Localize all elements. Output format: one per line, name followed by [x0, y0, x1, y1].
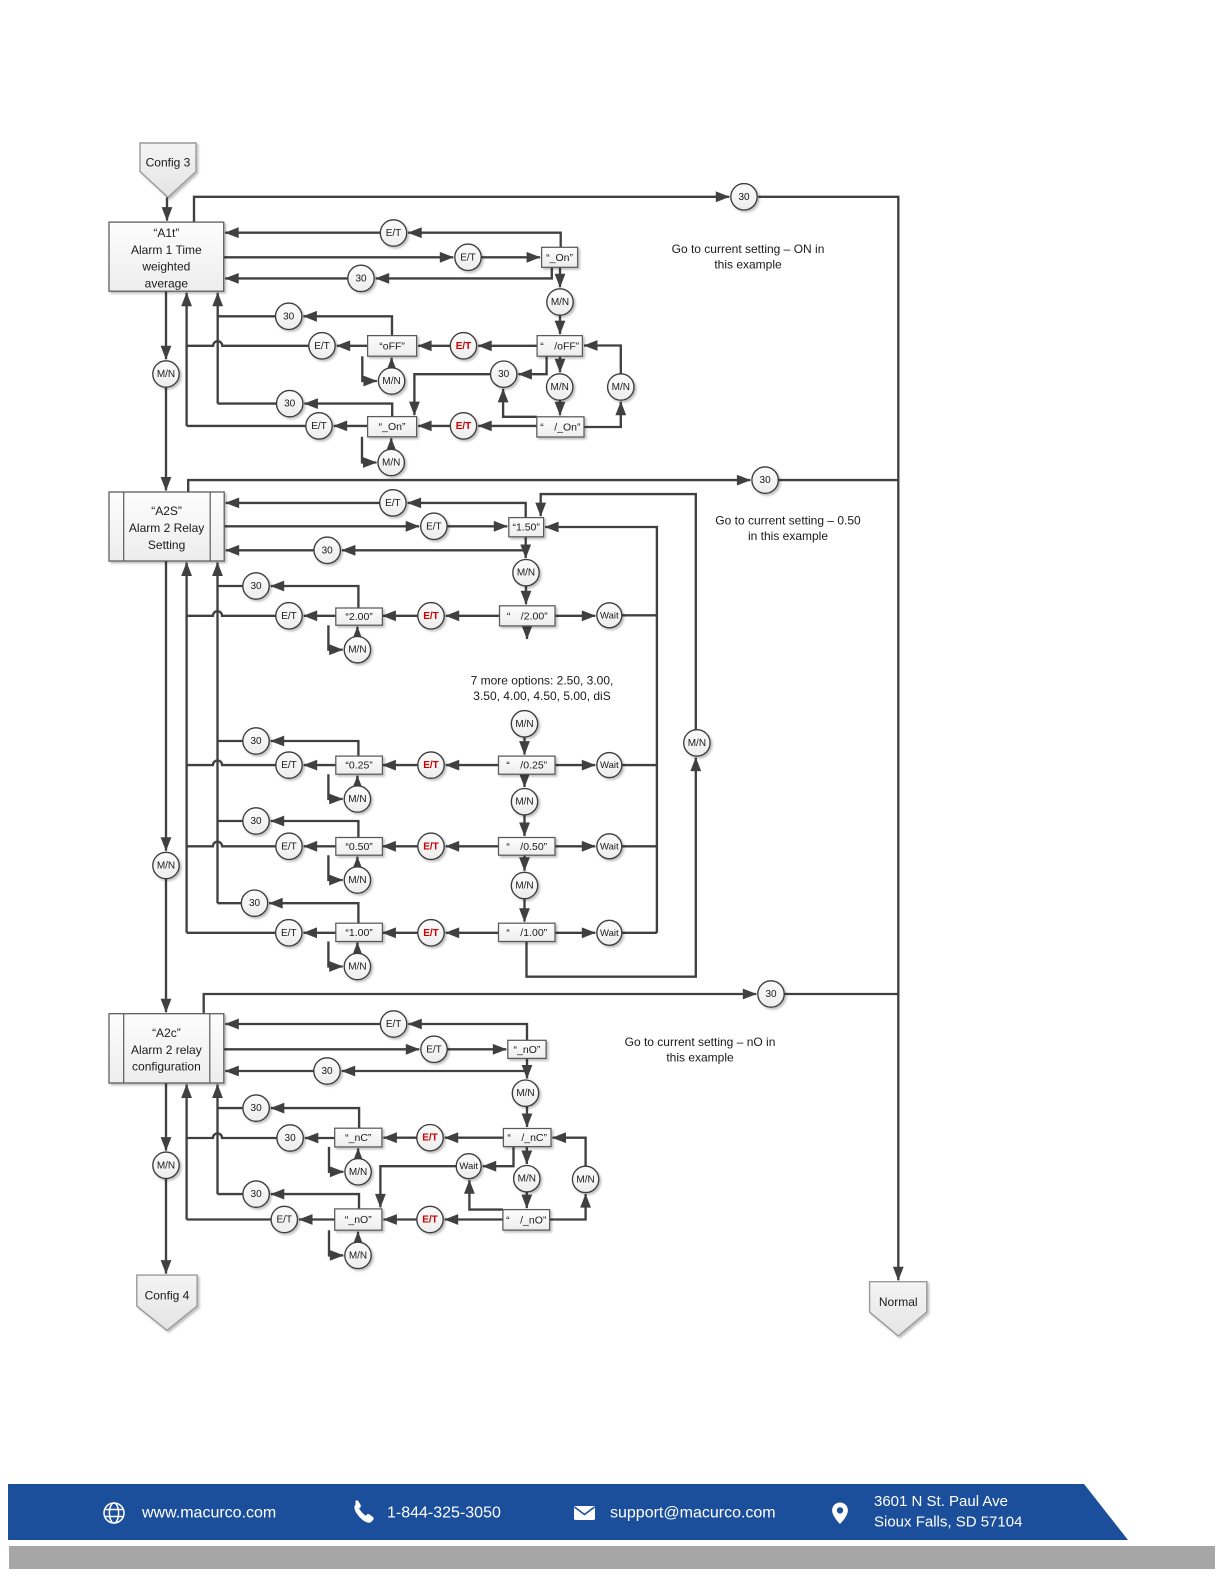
node E/T row2 S2 — [421, 513, 447, 539]
node M/N self-loop _nO — [345, 1242, 371, 1268]
node 30 r4 S2 — [241, 890, 267, 916]
svg-text:1-844-325-3050: 1-844-325-3050 — [387, 1505, 501, 1522]
wire /1.00 bottom to M/N return riser — [527, 758, 696, 977]
node M/N between /0.50 /1.00 — [511, 872, 537, 898]
wire _On to M/N — [559, 267, 561, 287]
svg-text:E/T: E/T — [386, 1019, 402, 1030]
wire red E/T to 1.00 box — [382, 932, 417, 934]
svg-text:Alarm 2 Relay: Alarm 2 Relay — [129, 521, 204, 535]
node 30 upper S3 — [243, 1095, 269, 1121]
wire 0.25 to E/T — [304, 764, 336, 766]
wire /_On to red E/T row — [478, 425, 537, 427]
node E/T r3 S2 — [276, 833, 302, 859]
note go to current setting 0.50 — [715, 514, 861, 544]
svg-text:30: 30 — [250, 736, 262, 747]
svg-text:“_On”: “_On” — [379, 421, 406, 433]
svg-text:E/T: E/T — [281, 928, 297, 939]
node red E/T nO row — [417, 1206, 443, 1232]
wire _On bottom to 30 row3 — [376, 267, 552, 278]
svg-text:this example: this example — [666, 1051, 734, 1065]
wire 30-return vertical into A2S bottom — [216, 563, 218, 904]
wire left M/N to A2c — [165, 879, 167, 1013]
node M/N left column S1 — [153, 361, 179, 387]
svg-text:30: 30 — [760, 475, 772, 486]
wire 0.50 top to 30 row — [271, 821, 359, 838]
box " /1.00" S2 — [499, 923, 556, 941]
box " /_On" blink S1 — [537, 417, 584, 437]
svg-text:E/T: E/T — [423, 611, 439, 622]
node Wait r2 S2 — [597, 753, 622, 778]
node 30 timeout top S1 — [731, 184, 757, 210]
svg-text:“ /1.00”: “ /1.00” — [506, 927, 547, 939]
wire oFF self-loop to M/N — [362, 356, 377, 381]
node E/T r2 S2 — [276, 752, 302, 778]
svg-text:Setting: Setting — [148, 538, 185, 552]
node red E/T r4 S2 — [418, 920, 444, 946]
note 7 more options — [471, 674, 614, 704]
box "1.50" display S2 — [509, 518, 544, 537]
wire 1.00 self-loop to M/N — [328, 942, 342, 967]
node E/T left of _On2 S1 — [306, 413, 332, 439]
svg-text:“ /_On”: “ /_On” — [540, 421, 581, 433]
wire M/N up into 0.25 bottom — [356, 776, 358, 786]
svg-text:30: 30 — [284, 399, 296, 410]
end pentagon Config 4 — [137, 1275, 197, 1330]
wire M/N up into _On2 bottom — [390, 438, 392, 449]
wire 30 to return col — [218, 402, 277, 404]
wire left M/N to Config 4 — [165, 1179, 167, 1274]
svg-text:“ /_nC”: “ /_nC” — [507, 1132, 547, 1144]
wire 30 timeout to right vertical S3 — [784, 993, 898, 995]
box " /_nC" S3 — [503, 1129, 551, 1147]
svg-text:“1.00”: “1.00” — [345, 927, 373, 939]
wire M/N up into 2.00 bottom — [356, 627, 358, 637]
svg-text:M/N: M/N — [157, 861, 175, 872]
node Wait r3 S2 — [597, 834, 622, 859]
wire /0.25 to red E/T — [446, 764, 499, 766]
node M/N above /0.25 — [511, 711, 537, 737]
svg-text:M/N: M/N — [157, 1160, 175, 1171]
wire M/N up into 0.50 bottom — [356, 857, 358, 867]
wire Wait to collector r4 — [622, 932, 657, 934]
svg-text:Normal: Normal — [879, 1295, 918, 1309]
wire E/T to left col (hop) r2 — [187, 761, 276, 766]
wire A2c timeout to 30 circle — [204, 994, 757, 1014]
wire E/T to A1t row1 — [225, 232, 380, 234]
node red E/T r1 S2 — [418, 603, 444, 629]
wire 30 to A2S row3 — [226, 549, 314, 551]
wire M/N mid1 to /0.50 — [523, 815, 525, 836]
wire A2c to left M/N S3 — [165, 1083, 167, 1151]
svg-text:E/T: E/T — [460, 252, 476, 263]
wire /_On top to 30 timeout — [503, 389, 537, 417]
wire 30 to return col r1 — [218, 585, 243, 587]
location pin icon — [832, 1503, 848, 1525]
svg-text:“_On”: “_On” — [546, 252, 573, 264]
wire Wait to _nO box top — [380, 1166, 456, 1207]
wire /0.50 to Wait r3 — [555, 845, 595, 847]
box A2c Alarm 2 relay configuration — [109, 1014, 224, 1083]
svg-text:M/N: M/N — [348, 962, 366, 973]
wire _On2 self-loop to M/N — [362, 437, 377, 463]
node E/T left of _nO — [271, 1206, 297, 1232]
wire red E/T to oFF box — [418, 345, 450, 347]
svg-text:M/N: M/N — [382, 376, 400, 387]
wire /0.25 to Wait r2 — [555, 764, 595, 766]
wire /1.00 to Wait r4 — [555, 932, 595, 934]
wire /0.50 to red E/T — [446, 845, 499, 847]
wire Wait collector to 1.50 box — [545, 527, 657, 933]
node M/N below _On S1 — [547, 289, 573, 315]
node 30 row3 S2 — [314, 537, 340, 563]
svg-text:“_nO”: “_nO” — [514, 1044, 541, 1056]
node M/N below _nO — [512, 1080, 538, 1106]
box "_nC" S3 — [335, 1128, 382, 1147]
wire 1.00 top to 30 row — [269, 903, 358, 923]
svg-text:M/N: M/N — [688, 738, 706, 749]
wire E/T to _On row2 — [481, 256, 540, 258]
box "_On" stored S1 — [368, 417, 417, 437]
wire 30 timeout to _On2 top — [414, 374, 490, 415]
wire _On2 top to 30 row — [304, 404, 392, 417]
node Wait r4 S2 — [597, 920, 622, 945]
node 30 left of _nC — [277, 1125, 303, 1151]
box " /0.50" S2 — [499, 838, 556, 856]
svg-text:3.50, 4.00, 4.50, 5.00, diS: 3.50, 4.00, 4.50, 5.00, diS — [473, 689, 610, 703]
svg-text:“0.25”: “0.25” — [345, 760, 373, 772]
svg-text:Wait: Wait — [600, 610, 619, 621]
svg-text:M/N: M/N — [518, 1174, 536, 1185]
svg-text:configuration: configuration — [132, 1060, 201, 1074]
wire 30 to A1t row3 — [225, 277, 348, 279]
wire /2.00 to red E/T — [446, 615, 500, 617]
svg-text:E/T: E/T — [277, 1215, 293, 1226]
svg-text:30: 30 — [355, 273, 367, 284]
svg-text:M/N: M/N — [516, 1088, 534, 1099]
svg-text:E/T: E/T — [314, 341, 330, 352]
wire M/N riser to /_nC right — [553, 1138, 586, 1167]
wire 30 to return col r2 — [218, 740, 243, 742]
svg-text:“ /2.00”: “ /2.00” — [507, 610, 548, 622]
wire red E/T to _nC box — [383, 1137, 416, 1139]
wire /2.00 to Wait — [555, 615, 595, 617]
wire A2S to left M/N S2 — [165, 561, 167, 851]
wire A1t to left M/N — [165, 291, 167, 359]
svg-text:30: 30 — [498, 369, 510, 380]
node 30 timeout S2 — [752, 467, 778, 493]
node E/T return row1 S2 — [380, 490, 406, 516]
wire 0.50 to E/T — [304, 845, 336, 847]
wire _nO to E/T — [299, 1218, 335, 1220]
wire M/N mid to /_nO — [526, 1192, 528, 1208]
box " /0.25" S2 — [499, 756, 556, 774]
svg-text:M/N: M/N — [348, 645, 366, 656]
svg-text:average: average — [145, 276, 189, 290]
svg-text:“_nO”: “_nO” — [345, 1214, 372, 1226]
wire A2S to E/T row2 — [224, 525, 419, 527]
wire M/N to /oFF box — [559, 315, 561, 334]
svg-text:E/T: E/T — [281, 841, 297, 852]
svg-text:E/T: E/T — [456, 341, 472, 352]
wire /_nO top-left to Wait bottom — [469, 1180, 503, 1209]
node E/T return row1 S3 — [380, 1011, 406, 1037]
wire A2S timeout to 30 circle — [188, 480, 750, 492]
wire M/N up into _nO bottom — [357, 1232, 359, 1243]
svg-text:E/T: E/T — [426, 1044, 442, 1055]
node red E/T oFF row S1 — [450, 333, 476, 359]
node M/N between /0.25 /0.50 — [511, 789, 537, 815]
node Wait S3 — [456, 1154, 481, 1179]
svg-text:30: 30 — [322, 545, 334, 556]
node 30 r2 S2 — [243, 728, 269, 754]
wire M/N up into oFF bottom — [390, 358, 392, 368]
svg-text:E/T: E/T — [422, 1133, 438, 1144]
svg-text:30: 30 — [251, 1103, 263, 1114]
wire E/T to 1.50 row2 — [447, 525, 507, 527]
wire 30 to return col S3b — [218, 1193, 243, 1195]
wire 2.00 to E/T — [304, 615, 336, 617]
note go to current setting nO — [625, 1035, 776, 1065]
globe icon — [104, 1503, 124, 1523]
node M/N self-loop _nC — [345, 1159, 371, 1185]
wire E/T to A2S row1 — [226, 502, 380, 504]
svg-text:30: 30 — [251, 1189, 263, 1200]
note go to current setting ON — [672, 242, 825, 272]
svg-text:E/T: E/T — [426, 521, 442, 532]
wire _nO top to 30 row — [271, 1194, 359, 1209]
wire Wait to right collector r1 — [622, 614, 657, 616]
wire M/N up into _nC bottom — [357, 1148, 359, 1158]
box " /oFF" blink S1 — [537, 336, 582, 357]
wire E/T to left return col (hop) — [187, 341, 309, 346]
wire /oFF bottom to 30 timeout — [518, 356, 546, 374]
wire 1.50 bottom T to 30 row3 — [342, 549, 526, 551]
svg-text:3601 N St. Paul Ave: 3601 N St. Paul Ave — [874, 1493, 1008, 1510]
wire /_nC to red E/T — [445, 1137, 504, 1139]
wire oFF top to 30 row — [303, 316, 392, 335]
box " /_nO" S3 — [503, 1210, 550, 1231]
wire /_nC bottom to Wait — [483, 1147, 514, 1167]
wire _nO bottom T to 30 row3 — [342, 1070, 527, 1072]
wire 0.50 self-loop to M/N — [328, 855, 342, 880]
node M/N return riser S2 — [684, 730, 710, 756]
svg-text:“A2c”: “A2c” — [152, 1026, 181, 1040]
node M/N below 1.50 — [513, 560, 539, 586]
box A1t Alarm 1 Time weighted average — [109, 222, 224, 291]
wire /0.50 to M/N mid2 — [523, 855, 525, 871]
svg-text:“ /0.50”: “ /0.50” — [506, 841, 547, 853]
node E/T return row1 S1 — [380, 220, 406, 246]
wire _On2 to E/T — [334, 425, 368, 427]
wire E/T to left return col — [187, 425, 306, 427]
svg-text:“_nC”: “_nC” — [345, 1132, 372, 1144]
svg-text:M/N: M/N — [348, 875, 366, 886]
wire /1.00 to red E/T — [446, 932, 499, 934]
svg-text:30: 30 — [765, 989, 777, 1000]
svg-text:30: 30 — [321, 1066, 333, 1077]
svg-text:“ /0.25”: “ /0.25” — [506, 760, 547, 772]
wire _nO self-loop to M/N — [329, 1230, 343, 1255]
wire 1.50 bottom to M/N — [525, 537, 527, 558]
svg-text:E/T: E/T — [423, 760, 439, 771]
box "_nO" display S3 — [508, 1040, 546, 1058]
wire M/N return riser to 1.50 top — [541, 494, 696, 730]
node red E/T r3 S2 — [418, 833, 444, 859]
svg-text:Go to current setting – 0.50: Go to current setting – 0.50 — [715, 514, 861, 528]
node M/N between /_nC /_nO — [514, 1166, 540, 1192]
svg-text:this example: this example — [714, 258, 782, 272]
wire _nC top to 30 row — [271, 1108, 359, 1128]
wire 30 to return col S3a — [218, 1107, 243, 1109]
wire _nC to 30 left — [305, 1137, 335, 1139]
wire E/T-return vertical into A2S bottom — [185, 563, 187, 933]
node E/T r4 S2 — [276, 920, 302, 946]
wire red E/T to 0.25 box — [382, 764, 417, 766]
svg-text:Wait: Wait — [600, 760, 619, 771]
footer blue bar — [8, 1484, 1128, 1540]
wire /_nC to M/N mid S3 — [526, 1147, 528, 1164]
svg-text:“ /_nO”: “ /_nO” — [506, 1214, 547, 1226]
box " /2.00" S2 — [500, 606, 556, 626]
wire 30 to A2c row3 — [225, 1070, 313, 1072]
svg-text:Alarm 1 Time: Alarm 1 Time — [131, 243, 202, 257]
wire M/N to /0.25 box — [523, 737, 525, 755]
svg-text:30: 30 — [250, 816, 262, 827]
svg-text:“2.00”: “2.00” — [345, 611, 373, 623]
wire E/T-return vertical into A2c bottom — [185, 1085, 187, 1220]
wire 1.00 to E/T — [304, 932, 336, 934]
wire M/N mid2 to /1.00 — [523, 899, 525, 922]
svg-text:30: 30 — [249, 898, 261, 909]
node 30 row3 S3 — [314, 1058, 340, 1084]
wire M/N riser to /oFF right — [584, 346, 621, 374]
svg-text:in this example: in this example — [748, 529, 828, 543]
wire 30 to return col r3 — [218, 820, 243, 822]
wire E/T to left col r4 — [187, 932, 276, 934]
svg-text:“A2S”: “A2S” — [151, 504, 182, 518]
end pentagon Normal — [870, 1282, 927, 1336]
node red E/T _On row S1 — [450, 413, 476, 439]
svg-text:M/N: M/N — [576, 1174, 594, 1185]
svg-text:30: 30 — [283, 311, 295, 322]
box A2S Alarm 2 Relay Setting — [109, 492, 224, 561]
node M/N self-loop 0.25 — [344, 786, 370, 812]
node E/T row2 S3 — [421, 1036, 447, 1062]
wire M/N up into 1.00 bottom — [356, 943, 358, 954]
svg-text:Wait: Wait — [600, 928, 619, 939]
svg-text:M/N: M/N — [515, 797, 533, 808]
svg-text:Config 3: Config 3 — [146, 155, 191, 169]
node M/N self-loop 2.00 — [344, 637, 370, 663]
svg-text:M/N: M/N — [515, 881, 533, 892]
svg-text:M/N: M/N — [349, 1167, 367, 1178]
wire /0.25 to M/N mid1 — [523, 774, 525, 787]
box "0.25" S2 — [336, 756, 383, 774]
wire 1.50 top to E/T return row1 S2 — [408, 503, 526, 518]
node 30 r1 S2 — [243, 573, 269, 599]
start pentagon Config 3 — [140, 143, 196, 197]
svg-text:Alarm 2 relay: Alarm 2 relay — [131, 1043, 202, 1057]
box "oFF" S1 — [368, 336, 417, 357]
svg-text:Go to current setting – ON in: Go to current setting – ON in — [672, 242, 825, 256]
wire /2.00 continuation arrow — [526, 626, 528, 639]
box "2.00" S2 — [336, 608, 383, 625]
svg-text:Go to current setting – nO in: Go to current setting – nO in — [625, 1035, 776, 1049]
node M/N between /oFF /_On S1 — [547, 374, 573, 400]
node Wait r1 S2 — [597, 603, 622, 628]
wire M/N to /2.00 box — [525, 586, 527, 604]
node M/N right riser S1 — [608, 374, 634, 400]
svg-text:M/N: M/N — [551, 297, 569, 308]
svg-text:M/N: M/N — [348, 794, 366, 805]
wire E/T to left col (hop) r1 — [187, 611, 276, 616]
wire oFF to E/T — [337, 345, 368, 347]
wire 30 to return col x217 — [218, 315, 276, 317]
wire _nC self-loop to M/N — [329, 1147, 343, 1172]
svg-text:E/T: E/T — [423, 928, 439, 939]
wire red E/T to _On2 box — [418, 425, 450, 427]
svg-text:“0.50”: “0.50” — [345, 841, 373, 853]
wire 30 timeout to right vertical S2 — [778, 479, 898, 481]
svg-text:“1.50”: “1.50” — [512, 522, 540, 534]
wire 0.25 top to 30 row — [271, 741, 359, 756]
svg-text:M/N: M/N — [349, 1250, 367, 1261]
node 30 above _On2 S1 — [277, 390, 303, 416]
wire left M/N to A2S — [165, 387, 167, 490]
wire 30-return vertical into A2c bottom — [216, 1085, 218, 1195]
wire E/T to left col S3 — [187, 1218, 272, 1220]
node 30 timeout S3 — [758, 981, 784, 1007]
wire A1t to E/T row2 — [224, 256, 454, 258]
wire 30-return vertical into A1t bottom — [217, 293, 219, 404]
svg-text:Wait: Wait — [600, 841, 619, 852]
node E/T r1 S2 — [276, 603, 302, 629]
svg-text:support@macurco.com: support@macurco.com — [610, 1505, 776, 1522]
node E/T left of oFF S1 — [309, 333, 335, 359]
wire 30 to left col (hop) — [187, 1133, 277, 1138]
wire /_On right to M/N riser — [584, 402, 621, 427]
wire Wait to collector r2 — [622, 764, 657, 766]
svg-text:Wait: Wait — [459, 1161, 478, 1172]
node M/N self-loop 0.50 — [344, 867, 370, 893]
wire E/T to _nO row2 — [447, 1048, 506, 1050]
box "0.50" S2 — [336, 838, 383, 856]
svg-text:“ /oFF”: “ /oFF” — [540, 340, 580, 352]
wire red E/T to 0.50 box — [382, 845, 417, 847]
svg-text:weighted: weighted — [141, 260, 190, 274]
wire Config 3 to A1t box — [166, 197, 168, 220]
svg-text:E/T: E/T — [423, 841, 439, 852]
wire red E/T to _nO box — [383, 1218, 416, 1220]
wire E/T to left col (hop) r3 — [187, 842, 276, 847]
wire M/N to /_nC box — [526, 1106, 528, 1127]
wire red E/T to 2.00 box — [382, 615, 417, 617]
node M/N left column S3 — [153, 1152, 179, 1178]
wire _nO bottom to M/N — [526, 1058, 528, 1078]
node M/N self-loop _On2 S1 — [378, 449, 404, 475]
node 30 above oFF S1 — [276, 303, 302, 329]
box "_On" display S1 — [542, 247, 578, 267]
svg-text:M/N: M/N — [515, 719, 533, 730]
node E/T row2 S1 — [455, 244, 481, 270]
wire /oFF to red E/T row oFF — [478, 345, 537, 347]
svg-text:E/T: E/T — [281, 611, 297, 622]
wire 0.25 self-loop to M/N — [328, 774, 342, 799]
node red E/T nC row — [417, 1125, 443, 1151]
node red E/T r2 S2 — [418, 752, 444, 778]
svg-text:E/T: E/T — [456, 421, 472, 432]
node M/N left column S2 — [153, 852, 179, 878]
